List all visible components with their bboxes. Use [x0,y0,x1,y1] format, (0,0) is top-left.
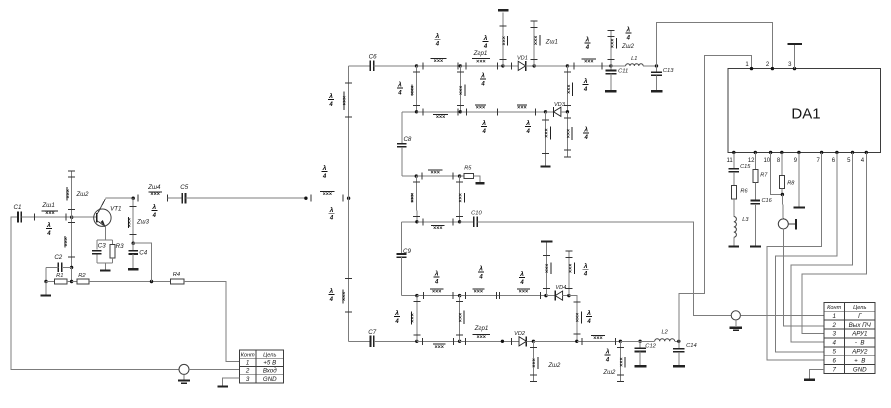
resistor R7 [753,152,768,182]
wire base [72,216,97,218]
node rail1 Zgr1 left [459,64,462,67]
ground left table GND row [217,378,239,386]
capacitor C13 [651,66,674,91]
svg-text:DA1: DA1 [791,106,820,123]
svg-text:2: 2 [831,322,836,329]
left column upper mixer [410,66,420,112]
svg-text:Конт: Конт [827,305,841,311]
microstrip R5 row [416,170,459,179]
svg-text:R1: R1 [56,273,63,279]
svg-text:3: 3 [832,331,836,338]
resistor R2 [72,273,90,284]
ground T above stub [541,240,552,242]
capacitor C1 [14,204,22,223]
svg-text:C14: C14 [686,343,697,349]
wire bias rail [89,281,171,283]
microstrip Zsh1 [35,202,67,221]
svg-text:4: 4 [480,81,485,87]
node C4 junction [132,242,135,245]
wire to DA1 pin2 [657,22,773,68]
pin 9 [794,151,801,164]
node LO row right [458,220,461,223]
svg-text:×××: ××× [545,264,551,273]
svg-text:4: 4 [832,340,836,347]
svg-text:λ: λ [583,77,588,85]
wire main vertical bus [348,66,350,341]
svg-text:Цепь: Цепь [263,352,276,358]
wire R4 to +5V table row [184,282,240,362]
svg-text:×××: ××× [568,264,574,273]
resistor R1 [46,273,72,284]
svg-text:×××: ××× [544,128,550,137]
svg-text:×××: ××× [342,96,348,105]
svg-text:×××: ××× [584,59,593,65]
svg-text:λ: λ [435,32,440,40]
wire IF output to DA1 pin1 [679,55,752,341]
svg-text:×××: ××× [341,292,347,301]
node row A VD4 cathode [544,294,547,297]
ground R5 [475,182,484,184]
svg-text:×××: ××× [517,105,526,111]
svg-text:×××: ××× [127,218,133,227]
node rail1 L1 C11 [609,64,612,67]
svg-text:VD4: VD4 [555,285,566,291]
capacitor C8 [397,112,412,176]
svg-text:×××: ××× [476,59,485,65]
wire input feedback line left [11,217,179,369]
svg-text:C1: C1 [14,204,22,211]
node rail B left column [415,340,418,343]
microstrip row A m1 [417,289,460,299]
microstrip rail2 m2 [460,105,545,115]
svg-text:λ: λ [151,203,156,211]
svg-text:λ: λ [329,206,334,214]
label lambda/4 open stub up [583,262,589,278]
svg-text:×××: ××× [533,36,539,45]
ground above pin 3 [787,44,802,69]
resistor R5 [460,165,480,182]
ground under C14 [673,365,685,367]
wire LO row left corner [402,221,417,223]
svg-text:×××: ××× [410,86,416,95]
svg-text:×××: ××× [435,344,444,350]
pin 2 [766,62,774,70]
connector LO circle [731,311,740,320]
svg-text:VD2: VD2 [514,331,526,337]
svg-text:4: 4 [478,274,483,280]
column right R5 to LO row [456,176,464,222]
ground right table GND row [804,370,824,380]
svg-text:4: 4 [482,129,487,135]
connector table right X2 [824,302,875,373]
svg-text:×××: ××× [458,313,464,322]
svg-text:6: 6 [832,357,836,364]
svg-text:C5: C5 [180,184,188,191]
microstrip Zsh4 [138,184,167,202]
ground below stub [540,166,550,168]
label lambda/4 row A m3 [519,270,525,286]
ground under C16 [750,245,761,247]
ground under LO connector [730,320,742,330]
diode VD3 [546,102,568,117]
svg-text:4: 4 [519,280,524,286]
microstrip corner stub [573,302,581,334]
resistor R8 [779,152,795,194]
microstrip bus upper [342,83,352,117]
pin 3 [788,62,796,70]
wire node to R1R2 node [71,267,73,281]
svg-text:×××: ××× [476,335,485,341]
node row A right [567,294,570,297]
pin 7 [817,151,824,164]
node R5 row right [458,174,461,177]
svg-text:L1: L1 [631,56,637,62]
column left R5 to LO row [410,176,420,222]
microstrip Zgr1 lower [460,325,517,345]
ground under input connector [178,374,190,383]
node rail1 ground stub [501,64,504,67]
node rail1 left column [415,64,418,67]
wire pin 5 to -B row [791,152,853,342]
svg-text:GND: GND [263,376,277,383]
svg-text:×××: ××× [566,129,572,138]
svg-text:7: 7 [832,366,836,373]
label lambda/4 column left [394,309,400,325]
op-amp DA1 box [728,69,880,153]
svg-text:×××: ××× [65,189,71,198]
svg-text:R5: R5 [464,165,472,171]
wire node to test point [781,195,784,220]
microstrip stub down [63,217,75,267]
wire row A right corner down [569,296,577,342]
label lambda/4 above Zgr1 [483,34,489,50]
node C4 branch on rail [150,280,153,283]
svg-text:×××: ××× [610,39,616,48]
svg-text:Zгр1: Zгр1 [474,325,489,332]
node C2 junction [70,266,73,269]
svg-text:C4: C4 [139,249,147,256]
microstrip rail1 m1 [417,59,461,70]
pin 4 [861,151,868,164]
svg-text:4: 4 [586,319,591,325]
svg-text:VD3: VD3 [554,102,566,108]
svg-text:×××: ××× [619,357,625,366]
column row A to rail B right [456,296,464,342]
label lambda/4 rail1 m1 [434,32,440,48]
open stub down right column [564,112,572,157]
svg-text:4: 4 [152,213,157,219]
test point connector XW2 [778,219,796,229]
node rail2 left column [415,110,418,113]
svg-text:- В: - В [855,340,865,347]
svg-text:2: 2 [245,368,250,375]
label Zsh2 top [621,44,635,50]
wire LO circle to table row G [740,314,824,316]
svg-text:λ: λ [483,34,488,42]
label lambda/4 below input [329,206,335,222]
svg-text:4: 4 [584,135,589,141]
wire rail B to C12 [620,340,640,342]
svg-text:C16: C16 [761,198,772,204]
svg-text:4: 4 [483,44,488,50]
svg-text:λ: λ [525,119,530,127]
svg-text:Вых ПЧ: Вых ПЧ [849,322,872,329]
svg-text:4: 4 [329,297,334,303]
svg-text:3: 3 [246,376,250,383]
capacitor C16 [751,183,773,246]
node R8 pin10 junction [781,193,784,196]
svg-text:C15: C15 [740,164,751,170]
svg-text:×××: ××× [45,211,54,217]
capacitor C7 [368,329,376,347]
label lambda/4 left column [397,81,403,97]
inductor L3 [734,199,750,246]
svg-text:λ: λ [583,125,588,133]
svg-text:4: 4 [328,102,333,108]
node top rail Zsh3 [132,197,135,200]
label Zsh2 stub right [602,370,616,376]
svg-text:4: 4 [605,357,610,363]
svg-text:4: 4 [329,216,334,222]
wire collector to top rail [105,197,133,199]
microstrip bus lower [341,278,352,312]
label lambda/4 corner stub [586,309,592,325]
capacitor C9 branch [397,222,412,296]
capacitor C15 [729,152,752,185]
svg-text:C2: C2 [54,254,62,261]
grounded stub down from VD3 anode [542,112,550,166]
svg-text:λ: λ [625,26,630,34]
capacitor C14 [673,341,697,366]
svg-text:×××: ××× [63,237,69,246]
node rail2 right column [566,110,569,113]
svg-text:×××: ××× [532,358,538,367]
microstrip row A m2 [460,289,546,299]
microstrip rail1 m3 [567,59,611,69]
svg-text:Вход: Вход [263,368,277,375]
label lambda/4 Zsh4 [151,203,157,219]
inductor L1 [611,56,657,66]
label lambda/4 right column [583,77,589,93]
svg-text:12: 12 [748,158,755,164]
svg-text:Zш1: Zш1 [41,202,54,209]
ground under C11 [605,90,617,92]
svg-text:Zш2: Zш2 [547,363,561,369]
svg-text:C13: C13 [663,68,674,74]
svg-text:C9: C9 [403,248,411,255]
open stub Zsh2 up right [607,30,616,66]
pin 6 [832,151,839,164]
grounded stub up from VD4 node [543,243,551,296]
column row A to rail B left [410,296,421,342]
microstrip stub Zsh2 up [65,171,89,218]
open stub up right [565,251,574,296]
node R1 left [44,280,47,283]
node input microstrip [304,197,307,200]
wire rail B from bus [349,340,371,342]
svg-text:λ: λ [397,81,402,89]
label lambda/4 row A m1 [434,270,440,286]
node rail B Zsh2 stub [532,340,535,343]
node rail2 m2 [459,110,462,113]
connector input circle [179,364,189,374]
svg-text:C3: C3 [98,243,106,250]
ground top stub [498,9,508,11]
svg-text:L2: L2 [661,330,668,336]
diode VD4 [546,285,569,301]
svg-text:C10: C10 [471,210,482,216]
wire rail2 corner from C8 [402,111,416,113]
node bus input junction [347,197,350,200]
wire emitter down [104,227,106,240]
svg-text:4: 4 [435,42,440,48]
wire pin 7 to +B row [767,152,824,360]
label lambda/4 Zsh2 top [625,26,631,42]
svg-text:λ: λ [328,92,333,100]
svg-text:АРУ1: АРУ1 [851,331,867,338]
svg-text:4: 4 [585,45,590,51]
svg-text:λ: λ [480,72,485,80]
pin 1 [745,62,753,70]
svg-text:+ В: + В [854,357,865,364]
svg-text:5: 5 [832,349,836,356]
svg-text:λ: λ [519,270,524,278]
microstrip row A m3 [499,289,540,299]
svg-text:R6: R6 [740,189,748,195]
pin 12 [748,151,757,164]
wire C6 to node [374,65,417,67]
svg-text:λ: λ [586,309,591,317]
ground under C4 [128,268,139,270]
capacitor C5 [168,184,189,203]
node rail2 VD3 anode [544,110,547,113]
svg-text:C11: C11 [618,69,628,75]
svg-text:×××: ××× [150,192,159,198]
microstrip input section [311,191,343,201]
node R5 row left [415,174,418,177]
ground under C13 [651,90,663,92]
svg-text:1: 1 [832,313,835,320]
ground pin 9 [793,152,805,207]
right column upper mixer [564,66,573,112]
node rail1 Zsh1 stub [533,64,536,67]
svg-text:4: 4 [583,87,588,93]
wire rail B to stub node [533,340,576,342]
svg-text:4: 4 [434,279,439,285]
svg-text:R4: R4 [173,272,180,278]
microstrip rail B m1 [417,338,460,351]
microstrip rail2 m1 [417,108,461,120]
svg-text:×××: ××× [501,36,507,45]
svg-text:10: 10 [763,158,770,164]
open stub Zsh2 down left [530,341,561,381]
transistor VT1 [94,199,122,227]
svg-text:4: 4 [626,35,631,41]
svg-text:×××: ××× [410,193,416,202]
label lambda/4 stub right [605,348,611,364]
wire main input line [186,197,306,199]
svg-text:C8: C8 [403,136,411,143]
svg-text:R7: R7 [760,172,768,178]
svg-text:АРУ2: АРУ2 [851,349,868,356]
svg-text:×××: ××× [566,84,572,93]
node row A left [415,294,418,297]
capacitor C12 [634,341,656,366]
ground under R1 node [41,282,52,296]
svg-text:C7: C7 [368,329,376,336]
diode VD1 [503,55,534,71]
node R1 R2 junction [70,280,73,283]
wire pin 10 to R8 bottom [771,152,783,194]
svg-text:λ: λ [585,35,590,43]
capacitor C10 [460,210,483,227]
resistor R6 [731,186,748,199]
svg-text:L3: L3 [742,217,749,223]
svg-text:11: 11 [726,158,733,164]
capacitor C2 [46,254,72,282]
svg-text:+5 В: +5 В [263,359,276,366]
svg-text:4: 4 [46,231,51,237]
label lambda/4 row A m2 [478,265,484,281]
node rail B corner stub [575,340,578,343]
wire pin 6 to ARU2 row [776,152,837,352]
node rail B m2 [458,340,461,343]
svg-text:×××: ××× [433,226,442,232]
svg-text:×××: ××× [436,115,445,121]
wire LO row to mixer port [477,222,731,316]
svg-text:×××: ××× [575,313,581,322]
svg-text:×××: ××× [519,289,528,295]
svg-text:R2: R2 [78,273,86,279]
svg-text:×××: ××× [410,313,416,322]
svg-text:VD1: VD1 [517,55,528,61]
svg-text:Zш3: Zш3 [136,219,150,225]
svg-text:×××: ××× [432,289,441,295]
svg-text:×××: ××× [458,193,464,202]
label lambda/4 above input [322,164,328,180]
wire C7 to node [374,340,417,342]
svg-text:Конт: Конт [241,352,255,358]
pin 5 [847,151,854,164]
svg-text:λ: λ [328,287,333,295]
svg-text:1: 1 [246,359,249,366]
svg-text:4: 4 [394,319,399,325]
resistor R4 [171,272,184,284]
svg-text:λ: λ [583,262,588,270]
open stub Zsh1 up [531,21,558,66]
wire C1 to Zsh1 [21,216,71,218]
label lambda/4 rail2 m3 [525,119,531,135]
svg-text:×××: ××× [430,170,439,176]
svg-text:λ: λ [46,221,51,229]
microstrip stub Zsh3 [127,198,150,243]
right column upper mixer inner [457,66,465,112]
wire rail1 to right column [534,65,567,67]
open stub Zsh2 down right [617,341,625,381]
svg-text:Zш2: Zш2 [602,370,616,376]
microstrip LO row [417,218,460,231]
svg-text:R8: R8 [787,181,795,187]
svg-text:4: 4 [583,272,588,278]
node row A m2 [458,294,461,297]
svg-text:Zш1: Zш1 [545,40,558,46]
ground under C3 R3 [100,270,111,272]
wire top rail 1 [349,65,371,67]
svg-text:λ: λ [605,348,610,356]
label lambda/4 bus lower [328,287,334,303]
svg-text:λ: λ [394,309,399,317]
capacitor C3 and resistor R3 network [92,240,124,270]
